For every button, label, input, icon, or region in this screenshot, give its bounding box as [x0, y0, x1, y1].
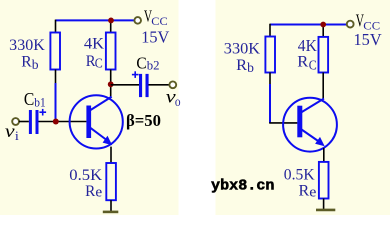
label VCC (right panel) — [356, 11, 380, 33]
wire: Rb bottom black stub (right) — [269, 73, 271, 85]
wire: Rb bottom black stub — [55, 70, 57, 84]
svg-text:R: R — [236, 57, 247, 74]
resistor RC (right panel) — [319, 37, 329, 73]
terminal: vi input — [12, 118, 19, 125]
ground (right panel) — [316, 209, 335, 212]
label RC (right panel) — [297, 54, 317, 73]
label 0.5K (right panel) — [284, 167, 315, 184]
svg-text:β=50: β=50 — [126, 111, 161, 130]
ground (left panel) — [103, 211, 119, 214]
svg-text:b: b — [32, 57, 39, 72]
svg-text:e: e — [95, 184, 102, 200]
right panel background — [216, 0, 390, 215]
label Re (left panel) — [85, 183, 102, 201]
label 330K (left panel) — [9, 37, 45, 54]
transistor Q1 (right panel) — [283, 98, 337, 152]
svg-text:i: i — [15, 129, 20, 143]
svg-text:0.5K: 0.5K — [284, 167, 315, 184]
svg-text:o: o — [175, 94, 181, 109]
wire: Re to ground (right) — [323, 199, 325, 210]
transistor Q1 (left panel) — [70, 95, 123, 148]
svg-text:4K: 4K — [84, 36, 105, 53]
wire: Cb1 to base — [39, 121, 87, 123]
svg-text:R: R — [85, 183, 96, 200]
resistor RC (left panel) — [106, 33, 116, 70]
label + polarity Cb1 — [39, 109, 46, 116]
capacitor Cb1 — [29, 110, 39, 134]
svg-text:C: C — [136, 53, 146, 72]
resistor Rb (left panel) — [50, 33, 60, 70]
label vi — [5, 121, 20, 143]
watermark ybx8.cn — [211, 178, 275, 195]
label 15V (right panel) — [354, 30, 382, 49]
wire: Cb2 to vo terminal — [149, 84, 170, 86]
svg-text:CC: CC — [151, 16, 168, 28]
wire: Rb to base corner (blue, right) — [269, 84, 271, 123]
svg-text:C: C — [309, 57, 317, 72]
label 15V (left panel) — [141, 27, 169, 46]
wire: VCC top rail (right panel) — [270, 24, 347, 26]
label beta=50 — [126, 111, 161, 130]
wire: stub from rail to RC top (right) — [322, 24, 324, 37]
capacitor Cb2 — [139, 74, 149, 97]
svg-text:4K: 4K — [298, 36, 317, 55]
wire: RC bottom to collector (right) — [322, 73, 324, 100]
label 330K (right panel) — [224, 40, 261, 57]
wire: stub from rail to Rb top — [55, 20, 57, 33]
label vo — [166, 87, 181, 110]
svg-text:0.5K: 0.5K — [69, 167, 102, 184]
svg-text:ybx8.cn: ybx8.cn — [211, 178, 275, 195]
wire: stub from rail to Rb top (right) — [269, 24, 271, 37]
label Cb1 — [24, 89, 46, 110]
label 4K (left panel) — [84, 36, 105, 53]
node: base junction dot — [53, 119, 59, 125]
svg-text:15V: 15V — [141, 27, 169, 46]
svg-text:R: R — [21, 54, 32, 71]
wire: emitter to Re (right) — [323, 148, 325, 162]
node: junction dot on VCC rail (right) — [320, 22, 326, 28]
label + polarity Cb2 — [132, 71, 139, 78]
label VCC (left panel) — [144, 7, 168, 28]
resistor Re (right panel) — [319, 162, 329, 199]
wire: Re to ground — [110, 200, 112, 211]
resistor Re (left panel) — [106, 163, 116, 200]
svg-text:R: R — [299, 183, 310, 200]
resistor Rb (right panel) — [265, 37, 275, 73]
terminal: vo output — [169, 81, 176, 88]
label Rb (right panel) — [236, 57, 254, 75]
node: collector junction dot — [108, 81, 114, 87]
label 4K (right panel) — [298, 36, 317, 55]
label RC (left panel) — [86, 53, 103, 71]
svg-text:C: C — [95, 56, 103, 71]
label 0.5K (left panel) — [69, 167, 102, 184]
terminal: VCC (left panel) — [134, 17, 141, 24]
svg-text:C: C — [24, 89, 34, 109]
wire: RC bottom to collector — [110, 70, 112, 98]
node: junction dot on VCC rail — [108, 18, 114, 24]
wire: base horizontal (right) — [269, 122, 297, 124]
label Rb (left panel) — [21, 54, 39, 72]
svg-text:15V: 15V — [354, 30, 382, 49]
left panel background — [0, 0, 179, 215]
wire: stub from rail to RC top — [110, 20, 112, 33]
label Re (right panel) — [299, 183, 317, 201]
svg-text:e: e — [309, 184, 316, 200]
svg-text:b2: b2 — [147, 58, 160, 73]
svg-text:R: R — [297, 54, 308, 71]
wire: vi terminal to Cb1 — [19, 121, 29, 123]
terminal: VCC (right panel) — [347, 21, 354, 28]
svg-text:b: b — [247, 60, 254, 75]
wire: Rb to base node (blue) — [55, 83, 57, 121]
svg-text:v: v — [5, 121, 15, 141]
wire: emitter to Re — [110, 147, 112, 163]
wire: collector node to Cb2 — [111, 84, 139, 86]
svg-text:b1: b1 — [34, 95, 45, 110]
wire: VCC top rail (left panel) — [56, 19, 135, 21]
svg-text:330K: 330K — [224, 40, 261, 57]
svg-text:330K: 330K — [9, 37, 45, 54]
label Cb2 — [136, 53, 159, 72]
